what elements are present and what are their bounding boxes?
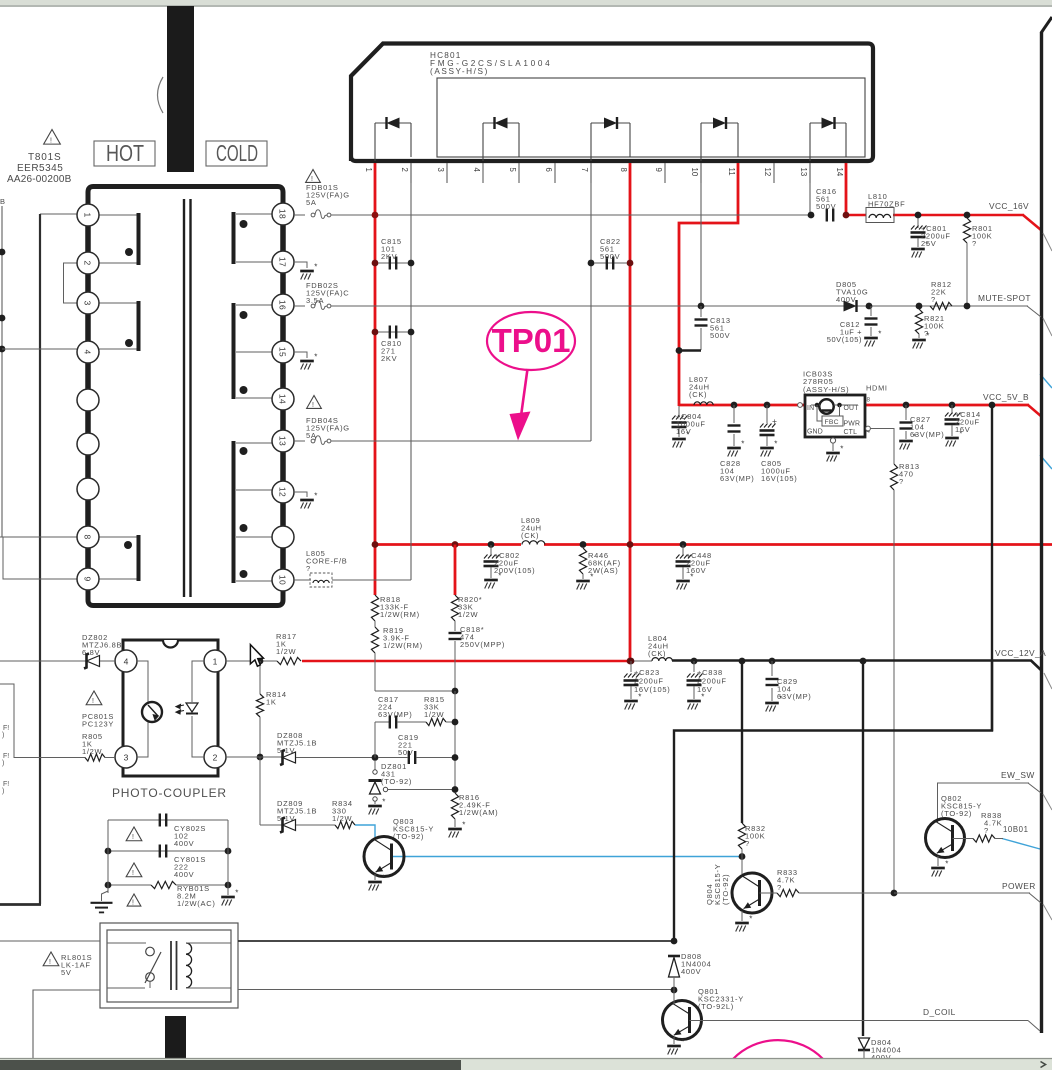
photo-coupler internals	[136, 661, 148, 702]
relay core	[170, 941, 172, 990]
svg-text:(TO-92): (TO-92)	[393, 832, 424, 841]
svg-text:10: 10	[690, 168, 699, 177]
wire HC801 pin10 vertical	[700, 163, 702, 306]
resistor R446	[580, 541, 587, 548]
svg-text:!: !	[132, 834, 134, 841]
TP01 callout ellipse	[487, 312, 575, 370]
resistor R819	[374, 621, 376, 627]
resistor R816	[451, 793, 458, 819]
svg-text:500V: 500V	[600, 252, 620, 261]
capacitor C813	[698, 303, 705, 310]
svg-text:*: *	[314, 492, 317, 501]
rail VCC_12V_A	[672, 659, 1032, 662]
rail diagonal to bus	[1031, 661, 1042, 672]
CY block verticals	[107, 820, 109, 893]
bus continuation diag EW_SW	[1043, 794, 1052, 810]
transformer pin 15 right	[272, 341, 294, 363]
node pin14 red	[843, 212, 850, 219]
svg-text:!: !	[132, 900, 134, 907]
HC801 internal diode pins 1-2	[375, 122, 411, 124]
node R817/R814	[257, 658, 264, 665]
svg-text:COLD: COLD	[216, 140, 258, 166]
HC801 pin 12 stub	[773, 163, 775, 183]
svg-text:10: 10	[278, 575, 288, 585]
svg-text:2: 2	[400, 168, 409, 172]
svg-text:500V: 500V	[710, 331, 730, 340]
svg-text:HDMI: HDMI	[866, 384, 888, 393]
ground pin15	[294, 352, 307, 358]
svg-text:16V: 16V	[676, 427, 691, 436]
wire D_COIL	[690, 1020, 1029, 1022]
svg-text:1/2W(RM): 1/2W(RM)	[383, 641, 423, 650]
svg-text:?: ?	[931, 295, 936, 304]
capacitor CY802S	[108, 819, 228, 821]
ICB03S CTL wire	[866, 426, 871, 431]
capacitor C805 electrolytic	[764, 402, 771, 409]
resistor R818	[371, 595, 378, 621]
transformer pin nc right	[272, 526, 294, 548]
bus continuation diag POWER	[1043, 904, 1052, 920]
svg-text:D_COIL: D_COIL	[923, 1007, 956, 1017]
resistor R813	[890, 464, 897, 490]
svg-text:6: 6	[544, 168, 553, 172]
capacitor C838 electrolytic	[691, 658, 698, 665]
svg-text:*: *	[749, 915, 752, 924]
svg-text:FBC: FBC	[825, 419, 839, 426]
bus continuation diag MUTE	[1043, 318, 1052, 336]
svg-text:50V(105): 50V(105)	[827, 335, 862, 344]
top window strip	[0, 0, 1052, 5]
resistor R833	[760, 892, 778, 894]
node left edge 318	[0, 315, 5, 322]
node 375,758	[372, 754, 379, 761]
svg-text:15: 15	[278, 347, 288, 357]
COLD label box	[206, 141, 267, 166]
relay box	[100, 923, 238, 1008]
capacitor C828	[731, 402, 738, 409]
svg-text:14: 14	[835, 168, 844, 177]
secondary winding 18-17	[236, 213, 272, 215]
relay RL801S warning	[43, 952, 59, 966]
svg-text:*: *	[314, 263, 317, 272]
photo-coupler pin 1	[204, 650, 226, 672]
wire pin18 row	[294, 214, 305, 216]
svg-text:PHOTO-COUPLER: PHOTO-COUPLER	[112, 786, 227, 800]
node D805 cathode	[866, 303, 873, 310]
svg-text:(TO-92): (TO-92)	[941, 809, 972, 818]
thick branch 730 loop	[674, 660, 992, 941]
svg-text:1/2W: 1/2W	[424, 710, 445, 719]
FDB01S warning	[306, 170, 321, 183]
capacitor C801 electrolytic	[917, 216, 919, 228]
svg-text:?: ?	[745, 839, 750, 848]
wire EW_SW	[938, 783, 1030, 822]
red wire VCC_16V rail	[846, 214, 866, 217]
svg-text:1: 1	[364, 168, 373, 172]
red rail 12V feed 661	[302, 660, 630, 663]
svg-text:5V: 5V	[61, 968, 72, 977]
HC801 pin 3 stub	[446, 163, 448, 183]
resistor R812	[930, 302, 952, 309]
svg-text:4: 4	[124, 656, 129, 666]
capacitor C810	[372, 329, 379, 336]
photo-coupler pin 3	[115, 746, 137, 768]
capacitor C829	[769, 658, 776, 665]
transformer pin 2 left	[77, 252, 99, 274]
svg-text:2KV: 2KV	[381, 354, 397, 363]
HOT label box	[94, 141, 155, 166]
divider black bar bottom	[165, 1016, 186, 1060]
resistor R821	[916, 303, 923, 310]
relay to D808 wire	[238, 940, 674, 942]
svg-text:OUT: OUT	[844, 405, 860, 412]
HC801 inner substrate rect	[437, 78, 865, 157]
secondary winding 15-14	[236, 397, 272, 399]
svg-text:?: ?	[899, 477, 904, 486]
svg-text:2W(AS): 2W(AS)	[588, 566, 618, 575]
svg-text:250V(MPP): 250V(MPP)	[460, 640, 505, 649]
long vertical wire x40	[39, 214, 41, 904]
HC801 internal diode pins 7-8	[591, 122, 630, 124]
svg-text:3: 3	[124, 752, 129, 762]
red wire HC801 pin1 vertical	[374, 163, 377, 595]
svg-text:!: !	[92, 698, 94, 705]
HC801 internal diode pins 4-5	[483, 122, 519, 124]
svg-text:63V(MP): 63V(MP)	[777, 692, 812, 701]
svg-text:?: ?	[924, 329, 929, 338]
wire C813 to red node	[679, 349, 701, 351]
wire HC801 pin13 vertical	[809, 163, 811, 215]
transformer core	[183, 199, 185, 597]
photo-coupler pin 2	[204, 746, 226, 768]
svg-text:(ASSY-H/S): (ASSY-H/S)	[803, 385, 849, 394]
node 375,215	[372, 212, 379, 219]
svg-text:2KV: 2KV	[381, 252, 397, 261]
svg-text:): )	[2, 788, 4, 795]
svg-text:HF70ZBF: HF70ZBF	[868, 200, 905, 209]
relay contacts	[107, 942, 146, 944]
transformer pin 12 right	[272, 481, 294, 503]
bus continuation diag VCC_16V	[1043, 233, 1052, 251]
photo-coupler box	[123, 640, 218, 776]
svg-text:25V: 25V	[921, 239, 936, 248]
svg-text:IN: IN	[807, 405, 814, 412]
left edge wire	[1, 206, 3, 537]
inductor L810	[866, 208, 894, 223]
HC801 pin 9 stub	[664, 163, 666, 183]
node POWER junction	[891, 890, 898, 897]
svg-text:(TO-92): (TO-92)	[721, 874, 730, 905]
mouse cursor	[250, 645, 263, 667]
ground pin12	[294, 492, 307, 497]
svg-text:13: 13	[799, 168, 808, 177]
HC801 pin 4 stub	[482, 163, 484, 183]
ground pin17	[294, 262, 307, 268]
svg-text:*: *	[681, 1038, 684, 1047]
HC801 pin 13 stub	[809, 163, 811, 183]
relay bottom wire to Q801	[238, 989, 674, 991]
HC801 pin 5 stub	[518, 163, 520, 183]
wire HC801 pin2 vertical	[410, 163, 412, 580]
svg-text:*: *	[235, 889, 238, 898]
magenta arc bottom	[733, 1040, 823, 1059]
svg-text:(TO-92L): (TO-92L)	[698, 1002, 734, 1011]
svg-text:!: !	[132, 870, 134, 877]
svg-text:160V: 160V	[686, 566, 706, 575]
svg-text:16V: 16V	[697, 685, 712, 694]
wire pin9 link	[3, 537, 77, 579]
svg-text:1/2W: 1/2W	[276, 647, 297, 656]
transformer pin 4 left	[77, 341, 99, 363]
svg-text:5A: 5A	[306, 198, 317, 207]
wire R819 to 455	[375, 690, 455, 692]
HOT/COLD divider black bar top	[167, 6, 194, 172]
capacitor C448 electrolytic	[680, 541, 687, 548]
svg-text:400V: 400V	[174, 870, 194, 879]
resistor R832	[738, 823, 745, 849]
capacitor CY801S	[108, 850, 228, 852]
photo-coupler pin 4	[115, 650, 137, 672]
cyan wire R834 to Q803	[355, 825, 375, 837]
svg-text:?: ?	[984, 826, 989, 835]
HC801 internal diode pins 10-11	[701, 122, 738, 124]
cyan diagonal right edge upper	[1040, 374, 1052, 388]
red diagonal VCC_5V_B to bus	[1028, 405, 1042, 417]
svg-text:8: 8	[619, 168, 628, 172]
svg-text:EW_SW: EW_SW	[1001, 770, 1035, 780]
HC801 pin 2 stub	[410, 163, 412, 183]
wire pin4 row	[2, 348, 77, 350]
capacitor C815	[372, 260, 379, 267]
red stub to R820	[454, 545, 457, 596]
svg-text:8: 8	[867, 397, 871, 404]
svg-text:F!: F!	[3, 753, 9, 760]
node red 12V junction	[627, 658, 634, 665]
ICB03S ground pin	[830, 438, 835, 443]
PC801S warning	[86, 691, 102, 705]
pin2-pin3 left link	[64, 263, 78, 303]
svg-text:63V(MP): 63V(MP)	[720, 474, 755, 483]
transformer pin 16 right	[272, 294, 294, 316]
bus continuation diag 12V	[1044, 673, 1052, 689]
svg-text:GND: GND	[807, 429, 823, 436]
svg-text:POWER: POWER	[1002, 881, 1036, 891]
svg-text:63V(MP): 63V(MP)	[910, 430, 945, 439]
svg-text:17: 17	[278, 257, 288, 267]
wire POWER	[894, 892, 1030, 894]
scrollbar	[0, 1058, 1052, 1070]
fuse FDB04S	[311, 439, 315, 443]
svg-text:2: 2	[213, 752, 218, 762]
thick branch 12V to R832	[739, 658, 746, 665]
capacitor C822	[588, 260, 595, 267]
cyan wire Q803 base to R832 node	[392, 856, 742, 858]
paren arc left of divider	[158, 77, 164, 113]
relay coil	[186, 943, 192, 988]
wire HC801 pin7 vertical	[590, 163, 592, 441]
wire pin1 to vertical bus	[40, 213, 77, 215]
capacitor C818*	[454, 621, 456, 631]
wire pin13 row	[294, 440, 305, 442]
svg-text:1/2W: 1/2W	[82, 747, 103, 756]
red wire HC801 pin8 vertical	[629, 163, 632, 661]
svg-text:F!: F!	[3, 725, 9, 732]
svg-text:1: 1	[213, 656, 218, 666]
svg-text:*: *	[462, 821, 465, 830]
fuse FDB01S	[311, 213, 315, 217]
capacitor C812	[870, 306, 872, 316]
transformer pin nc left	[77, 478, 99, 500]
svg-text:TP01: TP01	[492, 322, 571, 359]
primary winding 1-2	[99, 214, 137, 216]
svg-text:18: 18	[278, 209, 288, 219]
svg-text:PWR: PWR	[844, 421, 861, 428]
transformer T801S warning triangle	[44, 130, 61, 145]
diode D804	[859, 1038, 870, 1049]
wire pin8 row	[0, 536, 77, 538]
transformer pin 18 right	[272, 203, 294, 225]
primary winding 3-4	[99, 302, 137, 304]
resistor R820*	[451, 595, 458, 621]
svg-text:(ASSY-H/S): (ASSY-H/S)	[430, 67, 489, 76]
thick branch 12V to D804	[860, 658, 867, 665]
svg-text:HOT: HOT	[106, 140, 144, 166]
relay left wires	[0, 940, 100, 942]
svg-text:14: 14	[278, 394, 288, 404]
resistor RYB01S	[108, 884, 151, 886]
svg-text:1: 1	[83, 212, 93, 217]
capacitor C816	[826, 209, 828, 222]
svg-text:8: 8	[83, 534, 93, 539]
svg-text:B: B	[0, 197, 6, 206]
svg-text:9: 9	[83, 576, 93, 581]
node C816 left	[808, 212, 815, 219]
resistor R801	[964, 212, 971, 219]
svg-text:VCC_12V_A: VCC_12V_A	[995, 648, 1046, 658]
svg-text:(CK): (CK)	[689, 390, 707, 399]
svg-text:!: !	[311, 176, 313, 183]
svg-text:CORE-F/B: CORE-F/B	[306, 557, 347, 566]
node left edge 252	[0, 249, 5, 256]
TP01 arrow	[521, 369, 528, 416]
capacitor C823 electrolytic	[628, 658, 635, 665]
svg-text:PC123Y: PC123Y	[82, 720, 114, 729]
svg-text:10B01: 10B01	[1003, 825, 1029, 834]
earth ground CY	[102, 891, 109, 901]
wire pin16 row	[294, 305, 305, 307]
svg-text:12: 12	[278, 487, 288, 497]
node 674,941	[671, 938, 678, 945]
secondary winding 16-15	[236, 304, 272, 306]
svg-text:(CK): (CK)	[521, 531, 539, 540]
transformer pin 3 left	[77, 292, 99, 314]
svg-text:4: 4	[472, 168, 481, 173]
node R812 right	[964, 303, 971, 310]
node 674,990	[671, 987, 678, 994]
wire L805 to pin2 line	[332, 579, 411, 581]
red rail B+ 544	[375, 543, 521, 546]
transformer primary trunk	[85, 204, 91, 590]
cyan wire Q802 to bus	[1002, 839, 1040, 850]
transformer pin 14 right	[272, 388, 294, 410]
svg-text:3: 3	[436, 168, 445, 172]
HC801 pin 7 stub	[590, 163, 592, 183]
svg-text:400V: 400V	[174, 839, 194, 848]
wire 455 down	[454, 691, 456, 793]
svg-text:1K: 1K	[266, 698, 277, 707]
svg-text:MUTE-SPOT: MUTE-SPOT	[978, 293, 1031, 303]
svg-text:50V: 50V	[398, 748, 413, 757]
svg-text:VCC_5V_B: VCC_5V_B	[983, 392, 1029, 402]
svg-text:*: *	[741, 440, 744, 449]
svg-text:!: !	[49, 959, 51, 966]
wire VCC_5V_B vertical branch	[991, 406, 993, 731]
transformer pin 1 left	[77, 204, 99, 226]
svg-text:1/2W(AM): 1/2W(AM)	[459, 808, 498, 817]
page edge bus vertical	[1040, 32, 1043, 1033]
svg-text:CTL: CTL	[844, 429, 858, 436]
svg-text:16: 16	[278, 300, 288, 310]
primary winding 8-9	[99, 536, 137, 538]
node cyan R832	[739, 853, 746, 860]
red wire HC801 pin11 to VCC_5V_B	[679, 163, 738, 406]
HC801 pin 10 stub	[700, 163, 702, 183]
regulator ICB03S	[805, 395, 865, 437]
transformer pin 9 left	[77, 568, 99, 590]
svg-text:1/2W(AC): 1/2W(AC)	[177, 899, 216, 908]
fuse FDB02S	[311, 304, 315, 308]
transformer top frame	[88, 187, 283, 207]
svg-text:1/2W: 1/2W	[458, 610, 479, 619]
HC801 pin 6 stub	[554, 163, 556, 183]
svg-text:200V(105): 200V(105)	[494, 566, 535, 575]
svg-text:9: 9	[654, 168, 663, 172]
wire x40 exit bottom-left	[0, 903, 41, 906]
svg-text:!: !	[50, 137, 52, 144]
svg-text:16V: 16V	[955, 425, 970, 434]
svg-text:1/2W: 1/2W	[332, 814, 353, 823]
node rail 455	[452, 541, 459, 548]
svg-text:T801S: T801S	[28, 152, 61, 163]
svg-text:AA26-00200B: AA26-00200B	[7, 174, 72, 185]
capacitor C804 electrolytic	[678, 406, 680, 417]
svg-text:(TO-92): (TO-92)	[381, 777, 412, 786]
capacitor C802 electrolytic	[488, 541, 495, 548]
svg-text:*: *	[382, 874, 385, 883]
svg-text:500V: 500V	[816, 202, 836, 211]
transformer bottom frame	[88, 589, 283, 606]
node pin2 row	[257, 754, 264, 761]
HC801 block outline	[351, 44, 873, 162]
chassis ground CY	[221, 896, 235, 899]
transformer pin nc left	[77, 389, 99, 411]
svg-text:F!: F!	[3, 781, 9, 788]
svg-text:5: 5	[508, 168, 517, 173]
svg-text:*: *	[840, 445, 843, 454]
transformer pin nc left	[77, 433, 99, 455]
transformer pin 10 right	[272, 569, 294, 591]
svg-text:): )	[2, 760, 4, 767]
svg-text:3: 3	[83, 300, 93, 305]
svg-text:16V(105): 16V(105)	[634, 685, 670, 694]
svg-text:11: 11	[727, 168, 736, 176]
svg-text:1/2W(RM): 1/2W(RM)	[380, 610, 420, 619]
svg-text:16V(105): 16V(105)	[761, 474, 797, 483]
svg-text:?: ?	[972, 239, 977, 248]
svg-text:13: 13	[278, 436, 288, 446]
secondary winding 13-12-10	[236, 442, 272, 444]
diagonal MUTE-SPOT to bus	[1027, 306, 1041, 317]
